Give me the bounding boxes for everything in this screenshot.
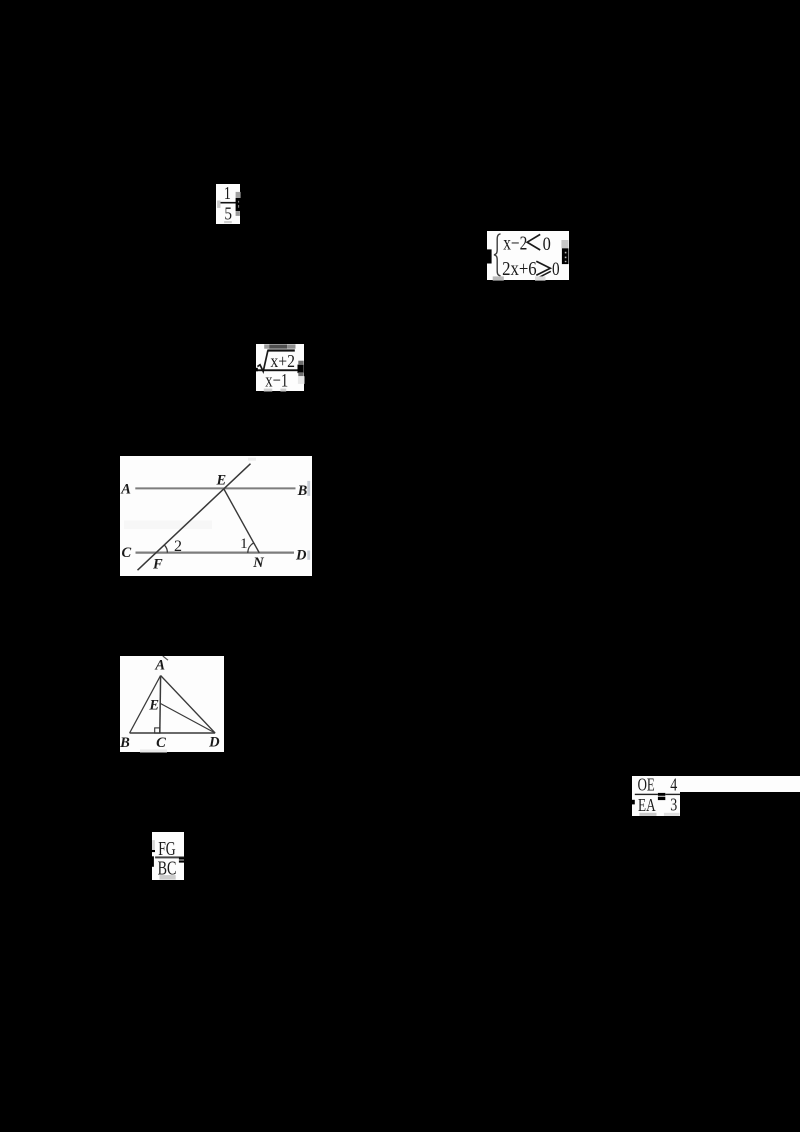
svg-text:C: C — [122, 545, 132, 561]
svg-text:x+2: x+2 — [270, 351, 295, 371]
segment EN — [224, 489, 259, 553]
svg-text:D: D — [208, 734, 220, 750]
greater-equal sign — [537, 261, 551, 275]
scan artifact: gray patch bottom — [224, 221, 232, 223]
line CD — [136, 551, 295, 553]
side AB — [130, 675, 161, 733]
formula panel: FG/BC = — [152, 832, 184, 880]
svg-text:x−1: x−1 — [265, 370, 288, 391]
scan artifact: clipped glyph left edge — [632, 799, 635, 804]
svg-text:E: E — [148, 697, 159, 713]
scan artifact: clipped glyph blob right — [235, 198, 240, 211]
scan artifact: clipped glyph left edge — [152, 850, 155, 852]
scan artifact: light patch right — [298, 376, 305, 384]
scan artifact: gray patch right top — [235, 192, 240, 198]
fraction bar — [155, 856, 184, 858]
angle 2 arc at F — [164, 545, 167, 553]
svg-text:N: N — [252, 555, 264, 571]
svg-text:B: B — [120, 735, 130, 751]
equals sign partial — [179, 857, 184, 859]
svg-text:0: 0 — [543, 234, 551, 255]
scan artifact: gray patches bottom — [264, 388, 273, 391]
scan artifact: gray patch bottom left — [493, 276, 504, 280]
svg-text:A: A — [120, 481, 131, 497]
side AD — [161, 675, 216, 733]
svg-text:1: 1 — [240, 536, 248, 552]
diagram panel: triangle with altitude — [120, 656, 224, 752]
formula panel: fraction 1/5 — [216, 184, 241, 225]
vinculum — [267, 349, 294, 351]
scan artifact: tick right of D — [307, 550, 310, 559]
formula panel: OE/EA = 4/3 white strip — [632, 776, 800, 792]
svg-text:OE: OE — [638, 776, 655, 795]
scan artifact: tick right of B — [307, 481, 310, 496]
svg-text:3: 3 — [670, 794, 677, 814]
formula panel: inequality system — [487, 231, 569, 281]
svg-text:4: 4 — [670, 776, 677, 795]
equals sign bold — [658, 792, 665, 795]
angle 1 arc at N — [248, 543, 254, 553]
fraction bar left — [635, 793, 658, 794]
base BD — [130, 732, 216, 734]
svg-text:2: 2 — [174, 538, 182, 555]
svg-text:EA: EA — [638, 795, 656, 815]
svg-text:C: C — [156, 735, 166, 751]
svg-text:D: D — [295, 547, 307, 563]
scan artifact: gray patch top right — [562, 240, 569, 248]
scan artifact: gray patch bottom left — [639, 812, 656, 815]
scan artifact: clipped glyph right edge — [562, 248, 569, 264]
svg-text:B: B — [297, 483, 308, 499]
svg-text:5: 5 — [224, 203, 232, 223]
scan artifact: gray patch left — [217, 200, 220, 207]
scan artifact: gray smudge bottom — [140, 749, 167, 752]
svg-text:x−2: x−2 — [504, 232, 528, 254]
line AB — [135, 487, 295, 489]
scan artifact: gray patch bottom — [159, 875, 175, 880]
scan artifact: smudge above transversal — [248, 457, 256, 460]
transversal line through F and E — [138, 463, 251, 570]
scan artifact: gray patch right bottom — [235, 211, 239, 216]
formula panel: OE/EA = 4/3 — [632, 776, 680, 816]
fraction bar right — [665, 793, 680, 794]
right angle mark at C — [155, 728, 160, 733]
altitude AC — [159, 675, 162, 733]
scan artifact: clipped glyph left edge — [487, 249, 492, 263]
fraction bar — [256, 369, 299, 371]
scan artifact: dark band top — [264, 344, 269, 348]
svg-text:2x+6: 2x+6 — [502, 257, 537, 279]
svg-text:A: A — [154, 657, 165, 673]
svg-text:1: 1 — [223, 184, 230, 203]
scan artifact: clipped glyph blob right — [297, 364, 303, 373]
scan artifact: gray strip left top — [152, 840, 155, 850]
scan artifact: faint band left middle — [124, 520, 212, 529]
segment ED — [160, 703, 215, 733]
formula panel: sqrt(x+2)/(x-1) — [256, 344, 305, 392]
svg-text:F: F — [152, 556, 163, 572]
left curly brace — [494, 233, 501, 275]
svg-text:0: 0 — [552, 258, 560, 279]
fraction bar — [220, 202, 241, 204]
diagram panel: parallel lines with transversal — [120, 456, 312, 576]
scan artifact: gray patch bottom right — [664, 812, 680, 815]
svg-text:E: E — [216, 472, 227, 488]
less-than sign — [528, 234, 541, 250]
scan artifact: dot left edge — [256, 368, 258, 372]
radical sign — [257, 350, 268, 371]
scan artifact: gray patch bottom center — [535, 276, 546, 280]
scan artifact: tick above A — [163, 656, 168, 660]
